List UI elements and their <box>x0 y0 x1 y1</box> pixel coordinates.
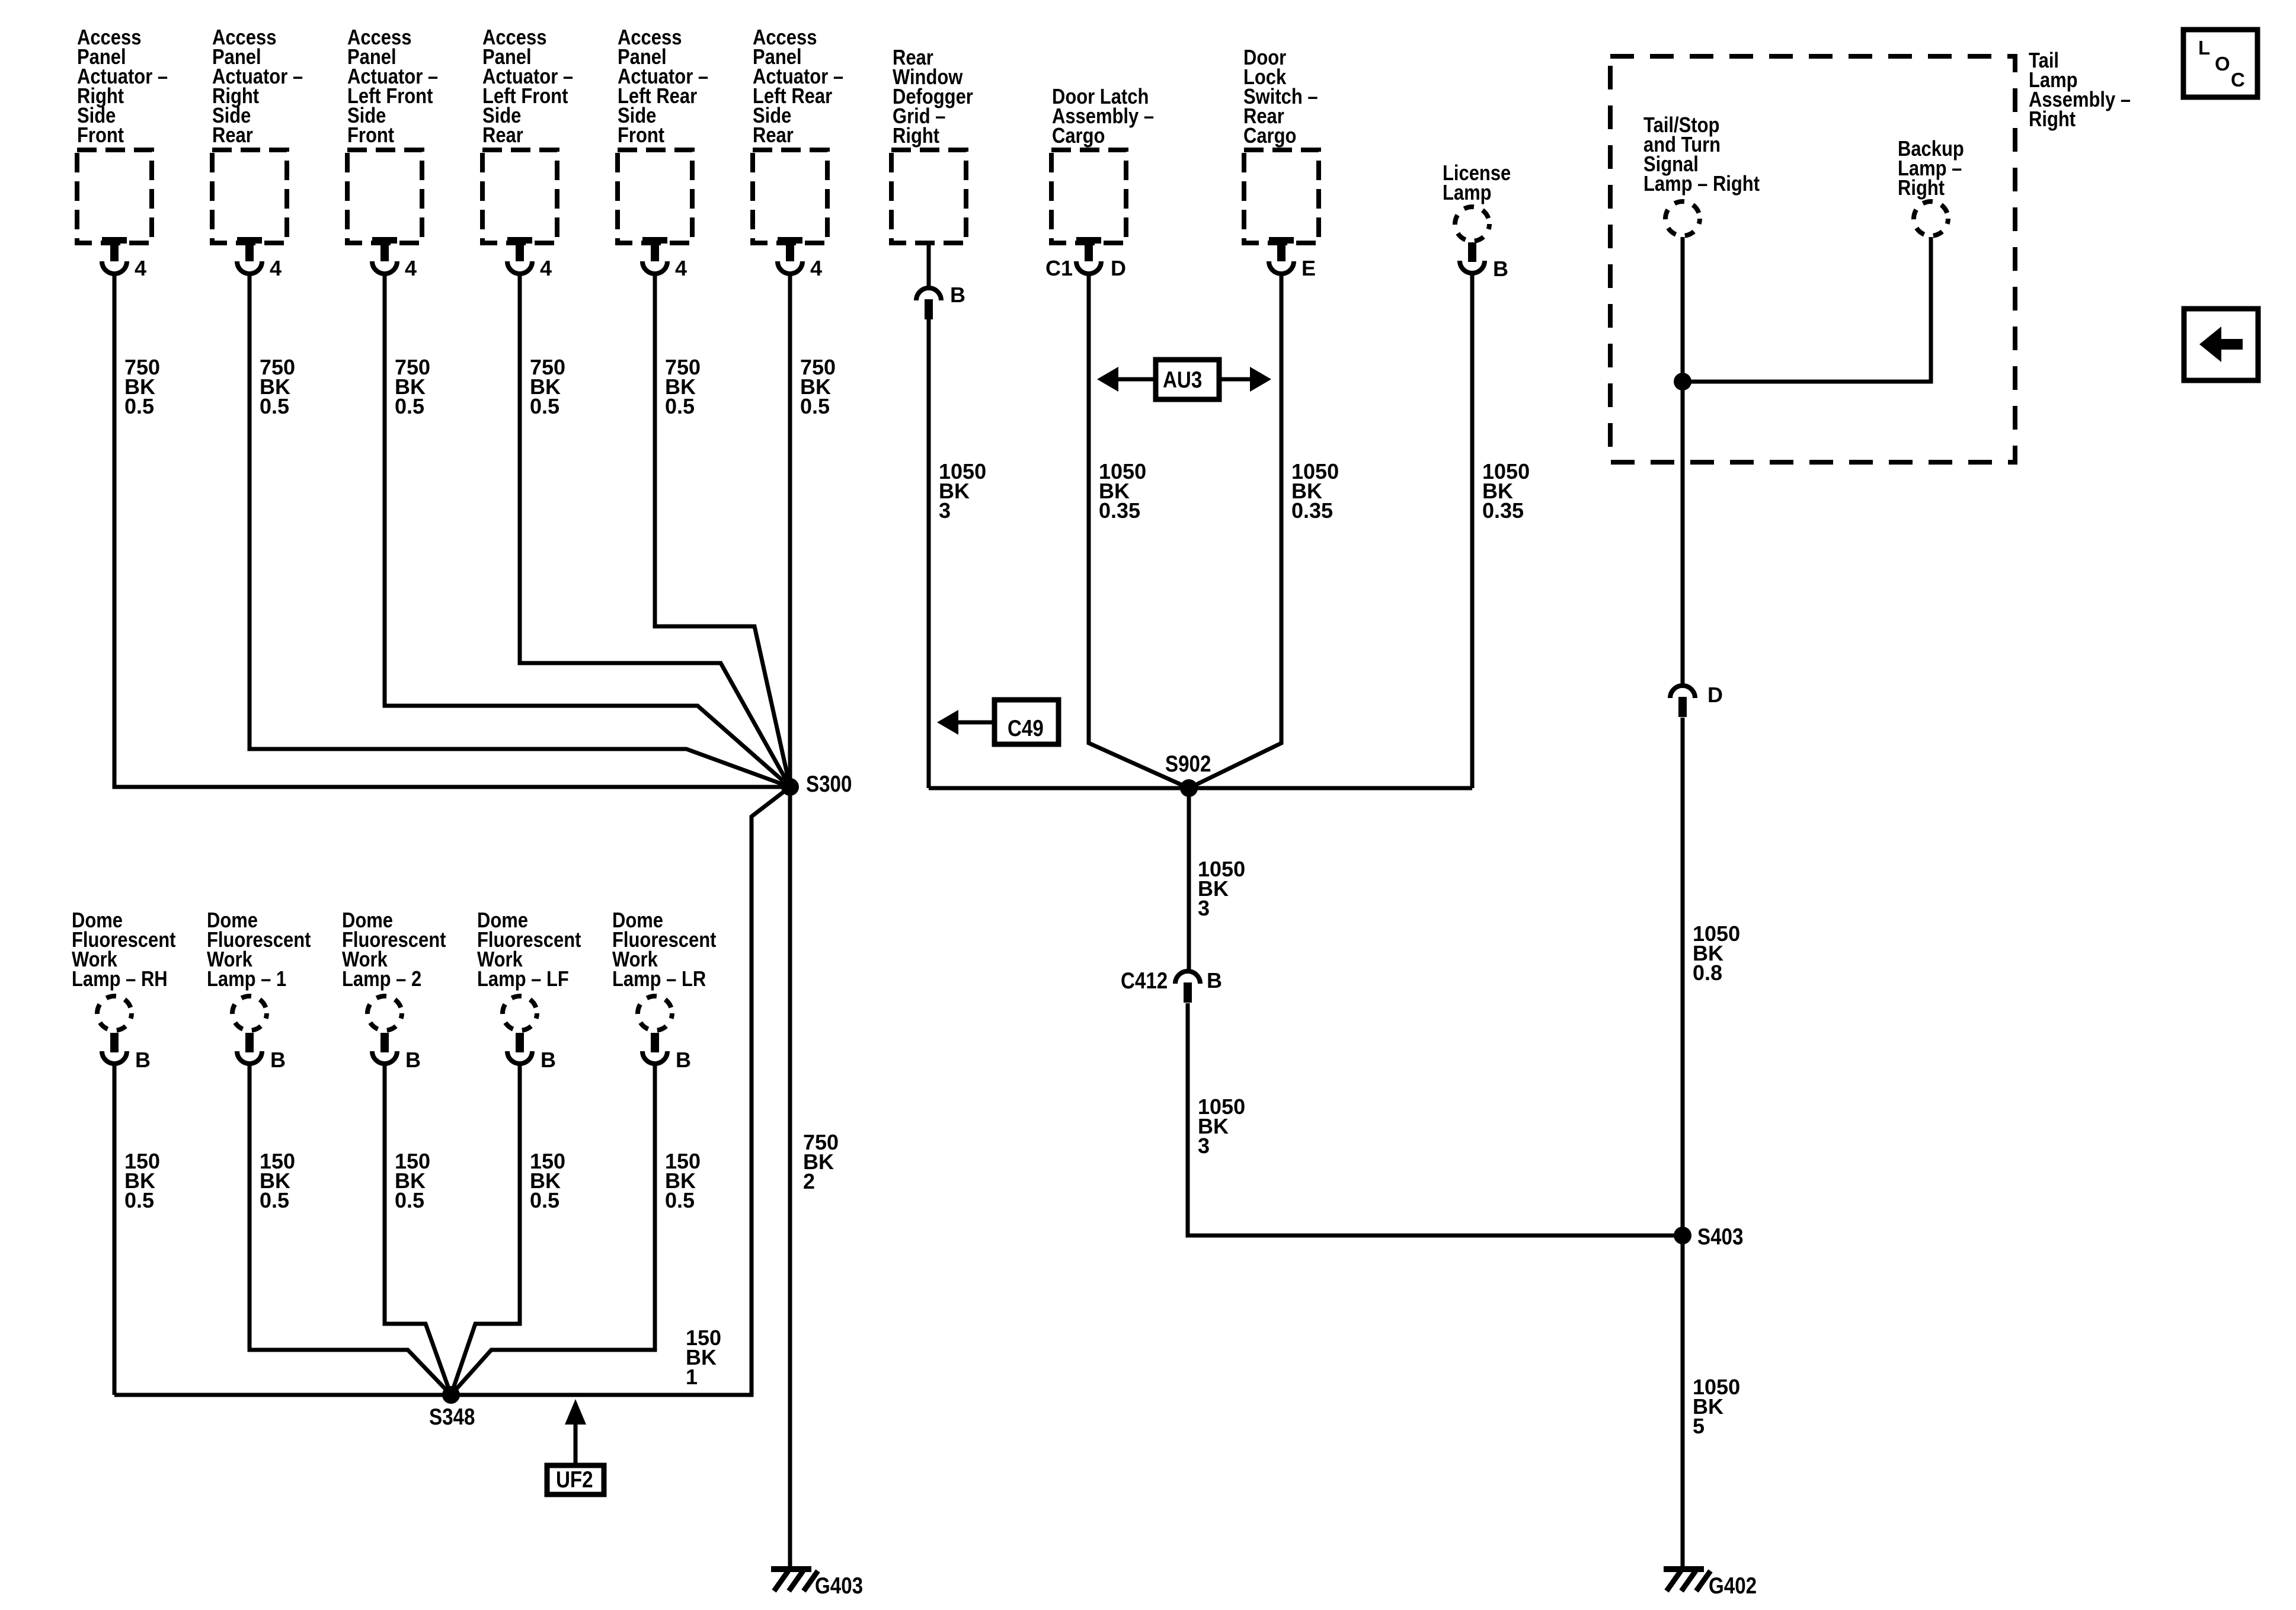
svg-text:Lamp – LF: Lamp – LF <box>477 968 569 991</box>
svg-text:C412: C412 <box>1121 967 1168 993</box>
svg-text:AU3: AU3 <box>1163 366 1202 392</box>
svg-text:4: 4 <box>135 256 146 280</box>
svg-text:S902: S902 <box>1165 750 1211 776</box>
svg-text:C1: C1 <box>1045 256 1073 280</box>
svg-text:4: 4 <box>810 256 822 280</box>
svg-text:0.5: 0.5 <box>260 1188 289 1212</box>
svg-text:G403: G403 <box>815 1572 863 1598</box>
svg-text:S348: S348 <box>429 1403 475 1429</box>
svg-text:Front: Front <box>347 124 394 148</box>
svg-text:0.5: 0.5 <box>395 1188 424 1212</box>
svg-text:D: D <box>1707 683 1723 707</box>
svg-text:C49: C49 <box>1008 715 1044 741</box>
svg-text:Lamp – 2: Lamp – 2 <box>342 968 421 991</box>
svg-text:Right: Right <box>2029 108 2076 132</box>
svg-text:0.35: 0.35 <box>1099 498 1140 523</box>
svg-text:3: 3 <box>939 498 951 523</box>
svg-text:Lamp – RH: Lamp – RH <box>72 968 168 991</box>
svg-text:4: 4 <box>540 256 552 280</box>
svg-text:1: 1 <box>686 1365 698 1389</box>
svg-text:G402: G402 <box>1709 1572 1757 1598</box>
svg-text:0.5: 0.5 <box>665 1188 695 1212</box>
svg-text:B: B <box>950 283 965 307</box>
svg-text:Rear: Rear <box>212 124 253 148</box>
svg-text:S403: S403 <box>1697 1223 1743 1249</box>
svg-text:B: B <box>405 1048 421 1072</box>
svg-text:Lamp: Lamp <box>1443 181 1492 205</box>
svg-text:0.5: 0.5 <box>665 394 695 418</box>
svg-text:B: B <box>270 1048 286 1072</box>
svg-text:E: E <box>1302 256 1316 280</box>
svg-text:B: B <box>1493 257 1508 281</box>
svg-text:0.5: 0.5 <box>530 1188 559 1212</box>
svg-text:2: 2 <box>803 1169 815 1193</box>
svg-text:Lamp – Right: Lamp – Right <box>1643 172 1760 196</box>
svg-text:4: 4 <box>405 256 417 280</box>
svg-text:B: B <box>541 1048 556 1072</box>
svg-text:3: 3 <box>1198 1134 1210 1158</box>
svg-text:B: B <box>676 1048 691 1072</box>
svg-text:0.35: 0.35 <box>1482 498 1524 523</box>
svg-text:Lamp – 1: Lamp – 1 <box>207 968 286 991</box>
svg-text:0.5: 0.5 <box>124 394 154 418</box>
svg-text:Right: Right <box>893 124 939 148</box>
svg-text:Cargo: Cargo <box>1243 124 1296 148</box>
svg-text:Front: Front <box>618 124 664 148</box>
svg-text:0.5: 0.5 <box>395 394 424 418</box>
svg-text:B: B <box>135 1048 151 1072</box>
svg-text:0.35: 0.35 <box>1291 498 1333 523</box>
svg-text:0.5: 0.5 <box>260 394 289 418</box>
svg-text:4: 4 <box>675 256 687 280</box>
svg-text:4: 4 <box>270 256 282 280</box>
svg-text:L: L <box>2198 37 2210 59</box>
svg-text:0.8: 0.8 <box>1693 961 1722 985</box>
svg-text:0.5: 0.5 <box>800 394 830 418</box>
svg-text:O: O <box>2215 53 2230 75</box>
svg-text:0.5: 0.5 <box>530 394 559 418</box>
svg-text:Front: Front <box>77 124 124 148</box>
svg-text:Cargo: Cargo <box>1052 124 1105 148</box>
svg-text:5: 5 <box>1693 1414 1705 1438</box>
svg-text:Right: Right <box>1898 177 1945 200</box>
svg-text:B: B <box>1207 968 1222 993</box>
svg-text:S300: S300 <box>806 770 852 796</box>
svg-text:Lamp – LR: Lamp – LR <box>612 968 706 991</box>
svg-text:Rear: Rear <box>753 124 794 148</box>
svg-text:0.5: 0.5 <box>124 1188 154 1212</box>
svg-text:C: C <box>2231 69 2245 91</box>
svg-text:UF2: UF2 <box>556 1466 593 1492</box>
svg-text:3: 3 <box>1198 896 1210 920</box>
svg-text:D: D <box>1111 256 1126 280</box>
svg-text:Rear: Rear <box>482 124 523 148</box>
